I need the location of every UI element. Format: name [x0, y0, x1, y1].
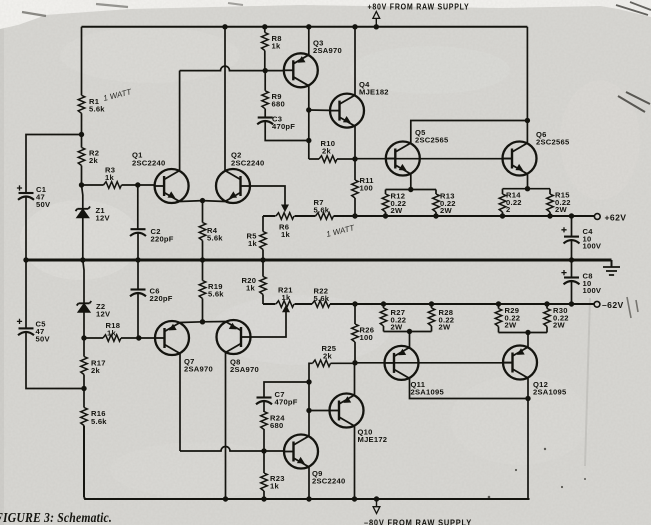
svg-text:1k: 1k — [246, 284, 255, 293]
node C2/C6 rail — [135, 257, 140, 262]
svg-text:2SC2565: 2SC2565 — [415, 136, 449, 145]
wire Q2 collector — [224, 27, 226, 171]
wire y70 with hop over Q2 collector — [180, 66, 266, 71]
resistor R25 — [309, 362, 355, 364]
svg-text:2k: 2k — [322, 147, 331, 156]
svg-text:680: 680 — [270, 421, 283, 430]
wire Q11 collector — [410, 378, 529, 398]
wire center rail — [26, 259, 612, 262]
wire +80V top rail — [82, 26, 528, 28]
capacitor C3 — [257, 118, 273, 125]
svg-text:1k: 1k — [107, 329, 116, 338]
node Q8 collector rail — [223, 496, 228, 501]
transistor Q2 2SC2240 — [216, 169, 250, 203]
resistor R2 — [81, 135, 83, 186]
resistor R15 — [549, 189, 551, 216]
node R13 bottom — [433, 213, 438, 218]
wire Q4 emitter — [354, 126, 356, 159]
wire Q8 collector down — [225, 353, 227, 500]
wire Q6 emitter — [527, 174, 529, 189]
node C7 arm tap — [306, 379, 311, 384]
resistor R17 — [83, 338, 85, 389]
resistor R23 — [263, 451, 265, 499]
svg-text:2W: 2W — [553, 321, 565, 330]
svg-text:–80V FROM RAW SUPPLY: –80V FROM RAW SUPPLY — [364, 518, 472, 525]
svg-text:680: 680 — [272, 100, 285, 109]
node R14 bottom — [500, 213, 505, 218]
wire rail right corner down to Q5/Q6 collectors — [526, 27, 528, 121]
wire Q4 collector to rail — [354, 27, 356, 95]
svg-text:+80V FROM RAW SUPPLY: +80V FROM RAW SUPPLY — [368, 1, 470, 11]
svg-text:2k: 2k — [323, 352, 332, 361]
resistor R4 — [202, 201, 204, 260]
svg-text:5.6k: 5.6k — [91, 417, 107, 426]
resistor R22 — [312, 301, 330, 308]
node R10/R11/Q5 base line — [352, 156, 357, 161]
resistor R16 — [83, 389, 85, 408]
node Q12 emitter bar — [525, 330, 530, 335]
wire +62V rail — [263, 215, 594, 217]
svg-text:2SC2565: 2SC2565 — [536, 138, 570, 147]
transistor Q10 MJE172 — [330, 394, 364, 428]
node R12 bottom — [383, 213, 388, 218]
resistor R6 — [276, 213, 294, 220]
svg-text:2SC2240: 2SC2240 — [132, 159, 165, 168]
resistor R21 — [276, 301, 294, 308]
svg-text:5.6k: 5.6k — [208, 290, 224, 299]
resistor R7 — [316, 213, 334, 220]
svg-text:470pF: 470pF — [272, 122, 295, 131]
node R27 top — [381, 301, 386, 306]
svg-text:2W: 2W — [505, 321, 517, 330]
node Q5 emitter bar — [408, 187, 413, 192]
wire Q7/Q8 emitters — [180, 322, 226, 323]
resistor R14 — [502, 189, 504, 216]
resistor R8 — [264, 27, 266, 71]
wire Q7 base — [139, 337, 155, 339]
node emitters R19 — [200, 319, 205, 324]
capacitor C1 — [18, 193, 34, 200]
node R2/R3/Z1 — [79, 182, 84, 187]
svg-text:2SA970: 2SA970 — [230, 365, 259, 374]
wire R14 R15 top bar — [503, 188, 551, 190]
capacitor C2 — [137, 185, 139, 229]
wire Q1 base — [138, 184, 155, 186]
node Q10 collector rail — [352, 496, 357, 501]
node C5/R17/R16 — [81, 386, 86, 391]
svg-text:1k: 1k — [270, 482, 279, 491]
wire Q4 base — [309, 109, 330, 111]
node Q3 base / R8 / R9 — [263, 68, 268, 73]
svg-text:470pF: 470pF — [275, 398, 298, 407]
transistor Q11 2SA1095 — [385, 346, 419, 380]
resistor R20 — [262, 260, 264, 304]
wire Q2 base to R6 wiper — [250, 186, 285, 206]
resistor R11 — [354, 159, 356, 216]
svg-text:2SA970: 2SA970 — [184, 365, 213, 374]
terminal +62V — [594, 214, 600, 220]
svg-text:50V: 50V — [36, 200, 51, 209]
resistor R18 — [84, 337, 139, 339]
transistor Q7 2SA970 — [155, 321, 189, 355]
svg-text:2W: 2W — [440, 206, 452, 215]
node Q9 emitter rail — [306, 496, 311, 501]
wiper arrow R21 — [282, 305, 290, 313]
svg-text:5.6k: 5.6k — [314, 205, 330, 214]
resistor R5 — [262, 216, 264, 260]
resistor R19 — [202, 260, 204, 322]
svg-text:220pF: 220pF — [151, 235, 174, 244]
node Z2/R17/R18 — [81, 335, 86, 340]
wire Q10 base — [309, 410, 330, 412]
svg-text:12V: 12V — [96, 214, 111, 223]
node R11 bottom — [352, 213, 357, 218]
capacitor C6 — [137, 260, 139, 289]
svg-text:+62V: +62V — [605, 213, 627, 223]
-80V supply arrow — [376, 499, 378, 507]
svg-text:2SC2240: 2SC2240 — [312, 477, 345, 486]
transistor Q9 2SC2240 — [284, 435, 318, 469]
wire Q5 emitter — [410, 174, 412, 190]
wire base line Q11 Q12 — [355, 362, 513, 364]
wire Q3 base — [265, 70, 284, 72]
svg-text:2SC2240: 2SC2240 — [231, 159, 264, 168]
resistor R13 — [435, 190, 437, 217]
svg-text:–62V: –62V — [602, 300, 624, 310]
wire -62V rail — [263, 303, 594, 305]
node C7/R24/R23/Q9 base — [261, 448, 266, 453]
transistor Q8 2SA970 — [217, 320, 251, 354]
zener Z1 — [82, 185, 83, 260]
node Q11/Q12 collectors — [525, 396, 530, 401]
resistor R3 — [82, 184, 138, 186]
node Q6 emitter bar — [525, 186, 530, 191]
svg-text:5.6k: 5.6k — [207, 234, 223, 243]
wire R12 R13 top bar — [386, 189, 437, 191]
svg-text:12V: 12V — [96, 310, 111, 319]
svg-text:220pF: 220pF — [150, 294, 173, 303]
svg-text:100: 100 — [360, 333, 373, 342]
wire Q8 base to R21 wiper — [251, 311, 287, 337]
wire Q3 emitter to rail — [308, 27, 310, 55]
svg-text:1k: 1k — [105, 173, 114, 182]
node C4/C8 rail — [569, 257, 574, 262]
resistor R10 — [309, 158, 355, 160]
node C1/C5 rail — [23, 257, 28, 262]
node Q5/Q6 collector tie — [525, 118, 530, 123]
svg-text:5.6k: 5.6k — [314, 294, 330, 303]
svg-text:2k: 2k — [89, 156, 98, 165]
node Q4 base tap — [306, 107, 311, 112]
svg-text:1k: 1k — [248, 239, 257, 248]
resistor R1 — [81, 27, 83, 135]
node Q11 emitter bar — [407, 329, 412, 334]
wire R27 R28 bottom bar — [384, 331, 432, 333]
node Q10 base tap — [306, 408, 311, 413]
node C6/R18/Q7 base — [136, 335, 141, 340]
wire to C1 — [26, 135, 82, 193]
svg-text:100V: 100V — [583, 242, 602, 251]
svg-text:1k: 1k — [281, 230, 290, 239]
svg-text:2W: 2W — [391, 323, 403, 332]
wiper arrow R6 — [281, 205, 289, 213]
node R4/R19 rail — [200, 257, 205, 262]
wire Q1 collector — [179, 71, 181, 171]
resistor R30 — [546, 304, 548, 333]
svg-text:100: 100 — [360, 184, 373, 193]
transistor Q1 2SC2240 — [155, 169, 189, 203]
wire Q7 collector down — [179, 354, 181, 452]
wire bottom rail nodes — [261, 496, 266, 501]
capacitor C7 — [264, 382, 309, 397]
capacitor C8 — [571, 260, 573, 277]
svg-text:2W: 2W — [555, 205, 567, 214]
svg-text:5.6k: 5.6k — [89, 105, 105, 114]
svg-text:2k: 2k — [91, 366, 100, 375]
node R29 top — [496, 301, 501, 306]
node -80V tap — [374, 496, 379, 501]
terminal -62V — [594, 301, 600, 307]
node R1 bottom — [79, 132, 84, 137]
svg-text:50V: 50V — [36, 335, 51, 344]
capacitor C4 — [571, 216, 573, 236]
wire Q9 emitter — [308, 467, 310, 499]
svg-text:100V: 100V — [583, 286, 602, 295]
transistor Q4 MJE182 — [330, 94, 364, 128]
zener Z2 — [83, 260, 84, 338]
resistor R28 — [431, 304, 433, 332]
svg-text:MJE182: MJE182 — [359, 88, 389, 97]
capacitor C5 — [25, 260, 27, 328]
wire Q3 collector down — [308, 86, 310, 159]
node emitters R4 — [200, 198, 205, 203]
wire y451 with hop over Q8 collector — [180, 447, 264, 452]
node R5/R20 rail — [260, 257, 265, 262]
wire Q10 emitter — [354, 363, 356, 395]
resistor R24 — [263, 429, 265, 451]
node Z1/Z2 rail — [80, 257, 85, 262]
ground — [611, 260, 613, 267]
resistor R9 — [264, 71, 266, 118]
wire Q5 collector loop — [411, 121, 528, 144]
wire Q1/Q2 emitters — [180, 200, 225, 203]
node R22/R26 — [352, 301, 357, 306]
node input Q1 base / C2 — [135, 182, 140, 187]
svg-text:2: 2 — [506, 205, 510, 214]
wire base line Q5 Q6 — [355, 158, 512, 160]
svg-text:2SA1095: 2SA1095 — [411, 388, 445, 397]
node C3 arm tap — [306, 138, 311, 143]
node R28 top — [429, 301, 434, 306]
transistor Q3 2SA970 — [284, 53, 318, 87]
transistor Q12 2SA1095 — [503, 346, 537, 380]
wire Q9 base — [264, 450, 284, 452]
+80V supply arrow — [375, 18, 377, 27]
node R15 bottom — [547, 213, 552, 218]
node C4 top — [569, 213, 574, 218]
node R30 top — [544, 301, 549, 306]
resistor R26 — [354, 304, 356, 363]
resistor R29 — [498, 304, 500, 333]
resistor R27 — [383, 304, 385, 332]
svg-text:1k: 1k — [272, 42, 281, 51]
svg-text:2W: 2W — [391, 206, 403, 215]
svg-text:2SA1095: 2SA1095 — [533, 388, 567, 397]
wire Q12 emitter — [527, 333, 529, 348]
transistor Q6 2SC2565 — [503, 142, 537, 176]
node C8 bottom — [569, 301, 574, 306]
svg-text:2W: 2W — [439, 323, 451, 332]
svg-text:1k: 1k — [282, 293, 291, 302]
svg-text:MJE172: MJE172 — [358, 435, 388, 444]
wire Q9 collector chain — [308, 363, 311, 436]
node top rail / Q2 collector — [222, 24, 227, 29]
wire Q12 collector — [527, 378, 529, 499]
resistor R12 — [385, 190, 387, 217]
svg-text:2SA970: 2SA970 — [313, 46, 342, 55]
wire R29 R30 bottom bar — [499, 332, 548, 334]
svg-text:FIGURE 3: Schematic.: FIGURE 3: Schematic. — [0, 511, 112, 525]
transistor Q5 2SC2565 — [386, 142, 420, 176]
wire Q11 emitter — [409, 332, 411, 348]
wire Q10 collector — [354, 426, 356, 499]
node R25/R26/Q10 emitter — [352, 360, 357, 365]
